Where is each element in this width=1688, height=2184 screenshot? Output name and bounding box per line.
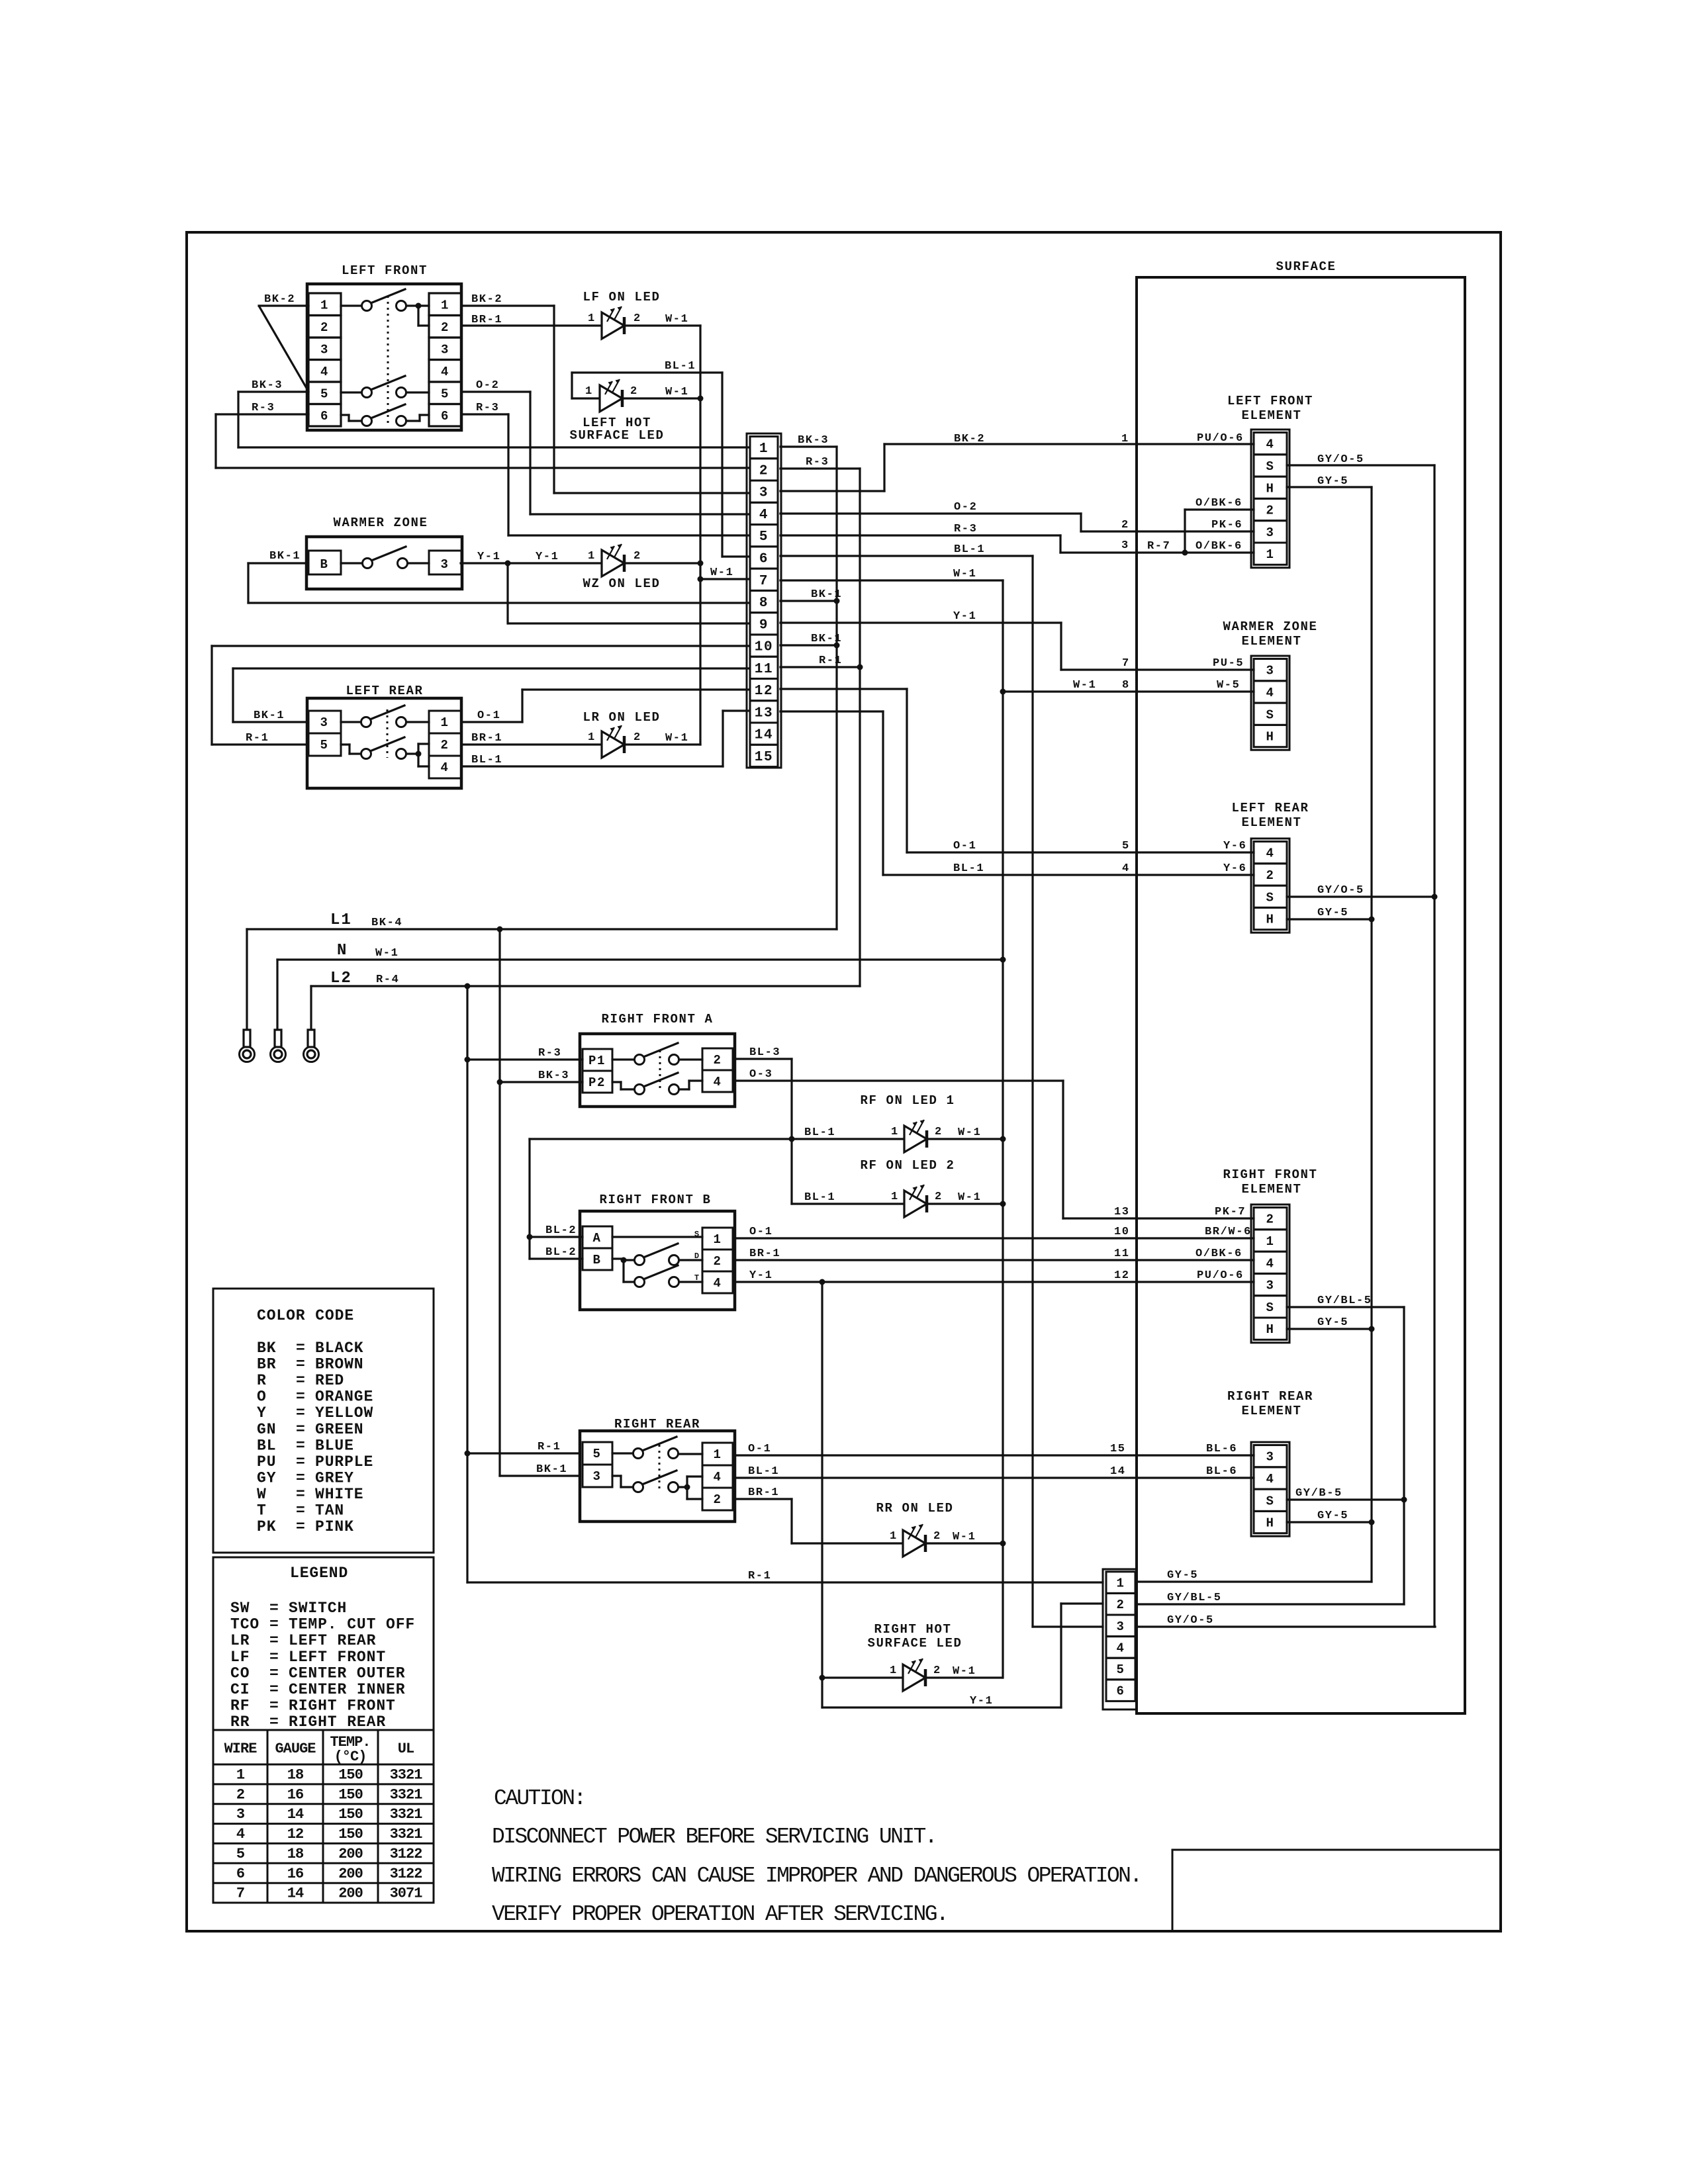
svg-text:PU: PU — [257, 1453, 276, 1471]
svg-text:3321: 3321 — [390, 1826, 423, 1843]
svg-text:RF ON LED 2: RF ON LED 2 — [860, 1158, 955, 1173]
svg-text:200: 200 — [338, 1886, 363, 1902]
svg-text:3321: 3321 — [390, 1786, 423, 1803]
svg-text:H: H — [1266, 481, 1274, 496]
svg-text:O/BK-6: O/BK-6 — [1196, 1248, 1243, 1260]
svg-text:GY-5: GY-5 — [1317, 1316, 1348, 1329]
svg-text:LF: LF — [230, 1649, 250, 1666]
svg-text:BK-3: BK-3 — [252, 379, 283, 392]
svg-text:R-4: R-4 — [376, 974, 399, 986]
svg-text:GREY: GREY — [315, 1469, 354, 1486]
svg-text:3321: 3321 — [390, 1767, 423, 1784]
svg-text:R-3: R-3 — [252, 402, 275, 414]
svg-text:H: H — [1266, 730, 1274, 745]
svg-text:5: 5 — [1122, 840, 1130, 852]
svg-text:WHITE: WHITE — [315, 1486, 364, 1503]
svg-text:R-1: R-1 — [748, 1570, 771, 1582]
svg-text:150: 150 — [338, 1767, 363, 1784]
svg-text:150: 150 — [338, 1806, 363, 1823]
svg-text:2: 2 — [441, 320, 449, 335]
svg-text:GY/O-5: GY/O-5 — [1317, 453, 1364, 466]
svg-text:BR/W-6: BR/W-6 — [1205, 1226, 1252, 1238]
svg-text:GREEN: GREEN — [315, 1421, 364, 1438]
svg-text:BR: BR — [257, 1356, 276, 1373]
svg-text:BROWN: BROWN — [315, 1356, 364, 1373]
svg-text:150: 150 — [338, 1786, 363, 1803]
svg-text:4: 4 — [1266, 846, 1274, 861]
svg-text:1: 1 — [891, 1191, 899, 1203]
svg-text:R-3: R-3 — [806, 456, 829, 469]
svg-text:O-1: O-1 — [749, 1226, 773, 1238]
svg-text:W-1: W-1 — [375, 947, 399, 960]
svg-text:GY/B-5: GY/B-5 — [1295, 1487, 1342, 1500]
svg-text:13: 13 — [755, 705, 773, 721]
svg-text:W-1: W-1 — [953, 568, 976, 580]
svg-text:14: 14 — [287, 1806, 304, 1823]
svg-text:PINK: PINK — [315, 1518, 354, 1535]
svg-text:BK-2: BK-2 — [954, 433, 985, 445]
svg-text:ORANGE: ORANGE — [315, 1388, 373, 1406]
svg-text:=: = — [269, 1664, 279, 1682]
svg-text:(°C): (°C) — [334, 1749, 367, 1765]
svg-text:N: N — [337, 942, 348, 960]
svg-text:GY-5: GY-5 — [1317, 1510, 1348, 1522]
svg-text:T: T — [257, 1502, 267, 1520]
svg-text:BK: BK — [257, 1340, 276, 1357]
svg-text:LEFT REAR: LEFT REAR — [289, 1632, 376, 1649]
svg-text:BL-1: BL-1 — [954, 543, 985, 556]
svg-text:O: O — [257, 1388, 267, 1406]
svg-text:2: 2 — [633, 550, 641, 563]
svg-text:2: 2 — [713, 1254, 722, 1269]
svg-text:=: = — [269, 1616, 279, 1633]
svg-text:BR-1: BR-1 — [471, 732, 502, 745]
svg-text:CI: CI — [230, 1681, 250, 1698]
svg-text:15: 15 — [755, 750, 773, 765]
svg-text:2: 2 — [1266, 504, 1274, 518]
svg-text:4: 4 — [713, 1276, 722, 1291]
svg-text:2: 2 — [933, 1530, 941, 1543]
svg-text:1: 1 — [713, 1447, 722, 1462]
svg-text:BL-6: BL-6 — [1206, 1443, 1237, 1455]
svg-text:H: H — [1266, 913, 1274, 927]
svg-text:8: 8 — [759, 596, 769, 611]
svg-text:4: 4 — [1122, 862, 1130, 875]
svg-text:BL: BL — [257, 1437, 276, 1454]
svg-text:5: 5 — [759, 529, 769, 545]
svg-text:2: 2 — [1266, 1212, 1274, 1227]
svg-text:Y-1: Y-1 — [477, 551, 500, 563]
svg-text:D: D — [694, 1251, 700, 1261]
svg-text:=: = — [296, 1388, 306, 1406]
svg-text:3: 3 — [440, 557, 449, 572]
svg-text:PU/O-6: PU/O-6 — [1197, 1269, 1244, 1282]
svg-text:O-2: O-2 — [954, 501, 977, 514]
svg-text:WARMER ZONE: WARMER ZONE — [1223, 619, 1317, 634]
svg-text:RIGHT FRONT: RIGHT FRONT — [1223, 1167, 1317, 1182]
svg-text:14: 14 — [287, 1886, 304, 1902]
svg-text:=: = — [296, 1486, 306, 1503]
svg-text:BK-1: BK-1 — [254, 709, 285, 722]
svg-text:PU/O-6: PU/O-6 — [1197, 432, 1244, 445]
svg-text:Y-1: Y-1 — [953, 610, 976, 623]
svg-text:Y-1: Y-1 — [749, 1269, 773, 1282]
svg-text:LEFT REAR: LEFT REAR — [346, 684, 423, 698]
svg-text:7: 7 — [236, 1886, 244, 1902]
svg-text:3: 3 — [1266, 525, 1274, 540]
svg-text:6: 6 — [1116, 1684, 1125, 1699]
svg-text:LEGEND: LEGEND — [290, 1565, 348, 1582]
svg-text:BLACK: BLACK — [315, 1340, 364, 1357]
svg-text:3: 3 — [320, 342, 329, 357]
svg-text:BLUE: BLUE — [315, 1437, 354, 1454]
svg-text:RIGHT REAR: RIGHT REAR — [289, 1713, 386, 1731]
svg-text:CENTER INNER: CENTER INNER — [289, 1681, 405, 1698]
svg-text:BK-4: BK-4 — [371, 917, 402, 929]
svg-text:P1: P1 — [588, 1054, 606, 1068]
svg-text:BL-1: BL-1 — [471, 754, 502, 766]
svg-text:5: 5 — [320, 738, 328, 752]
svg-text:ELEMENT: ELEMENT — [1241, 634, 1301, 649]
svg-text:3: 3 — [1266, 664, 1274, 678]
svg-text:9: 9 — [759, 617, 769, 633]
svg-text:=: = — [269, 1600, 279, 1617]
svg-text:O/BK-6: O/BK-6 — [1196, 540, 1243, 553]
svg-text:LR: LR — [230, 1632, 250, 1649]
svg-text:B: B — [592, 1253, 601, 1267]
svg-text:S: S — [1266, 1300, 1274, 1315]
svg-text:2: 2 — [633, 731, 641, 744]
svg-text:5: 5 — [441, 387, 449, 401]
svg-text:WIRE: WIRE — [224, 1741, 258, 1757]
svg-text:Y: Y — [257, 1404, 267, 1422]
svg-text:3: 3 — [1266, 1450, 1274, 1465]
svg-text:BR-1: BR-1 — [749, 1248, 780, 1260]
svg-text:1: 1 — [891, 1126, 899, 1138]
svg-text:PURPLE: PURPLE — [315, 1453, 373, 1471]
svg-text:5: 5 — [592, 1447, 601, 1461]
svg-text:Y-1: Y-1 — [536, 551, 559, 563]
svg-text:3: 3 — [592, 1469, 601, 1484]
svg-text:1: 1 — [320, 298, 329, 312]
svg-text:P2: P2 — [588, 1075, 606, 1090]
svg-text:W-1: W-1 — [665, 386, 688, 398]
svg-text:S: S — [1266, 707, 1274, 722]
svg-text:GAUGE: GAUGE — [275, 1741, 316, 1757]
svg-text:3: 3 — [1266, 1279, 1274, 1293]
svg-text:R: R — [257, 1372, 267, 1389]
svg-text:=: = — [296, 1453, 306, 1471]
svg-text:W-1: W-1 — [710, 567, 733, 579]
svg-text:L1: L1 — [330, 911, 352, 929]
svg-text:2: 2 — [633, 312, 641, 325]
svg-text:2: 2 — [1116, 1598, 1125, 1612]
svg-text:8: 8 — [1122, 679, 1130, 692]
svg-text:1: 1 — [441, 298, 449, 312]
svg-text:ELEMENT: ELEMENT — [1241, 1182, 1301, 1197]
svg-text:2: 2 — [933, 1664, 941, 1677]
svg-text:BK-1: BK-1 — [811, 588, 842, 601]
svg-text:RR ON LED: RR ON LED — [876, 1501, 953, 1516]
svg-text:14: 14 — [1110, 1465, 1126, 1478]
svg-text:RF ON LED 1: RF ON LED 1 — [860, 1093, 955, 1108]
svg-text:S: S — [1266, 890, 1274, 905]
svg-text:COLOR CODE: COLOR CODE — [257, 1307, 354, 1324]
svg-text:2: 2 — [935, 1126, 943, 1138]
svg-text:4: 4 — [1116, 1641, 1125, 1655]
svg-text:T: T — [694, 1273, 700, 1283]
svg-text:ELEMENT: ELEMENT — [1241, 408, 1301, 423]
svg-text:1: 1 — [236, 1767, 245, 1784]
svg-text:W-1: W-1 — [665, 313, 688, 326]
svg-text:W-1: W-1 — [953, 1665, 976, 1678]
svg-text:1: 1 — [1266, 547, 1274, 562]
svg-text:1: 1 — [1266, 1234, 1274, 1249]
svg-text:RR: RR — [230, 1713, 250, 1731]
svg-text:PU-5: PU-5 — [1213, 657, 1244, 670]
svg-text:2: 2 — [713, 1492, 722, 1507]
svg-text:PK-6: PK-6 — [1211, 519, 1243, 531]
svg-text:3122: 3122 — [390, 1846, 422, 1862]
svg-text:1: 1 — [588, 550, 596, 563]
svg-text:WIRING ERRORS CAN CAUSE IMPROP: WIRING ERRORS CAN CAUSE IMPROPER AND DAN… — [492, 1864, 1141, 1888]
svg-text:W-1: W-1 — [1073, 679, 1096, 692]
svg-text:BR-1: BR-1 — [471, 314, 502, 326]
svg-text:RIGHT FRONT: RIGHT FRONT — [289, 1698, 396, 1715]
svg-text:3122: 3122 — [390, 1866, 422, 1882]
svg-text:6: 6 — [320, 409, 329, 424]
svg-text:SURFACE: SURFACE — [1276, 259, 1336, 274]
svg-text:3: 3 — [1116, 1619, 1125, 1634]
svg-text:RIGHT FRONT B: RIGHT FRONT B — [599, 1193, 711, 1207]
svg-text:3: 3 — [320, 715, 328, 730]
svg-text:GY/O-5: GY/O-5 — [1167, 1614, 1214, 1627]
svg-text:=: = — [296, 1372, 306, 1389]
svg-text:PK: PK — [257, 1518, 276, 1535]
svg-text:2: 2 — [320, 320, 329, 335]
svg-text:3: 3 — [759, 486, 769, 501]
svg-text:DISCONNECT POWER BEFORE SERVIC: DISCONNECT POWER BEFORE SERVICING UNIT. — [492, 1825, 936, 1849]
svg-text:LEFT REAR: LEFT REAR — [1231, 801, 1309, 815]
svg-text:6: 6 — [759, 551, 769, 567]
svg-text:1: 1 — [890, 1530, 898, 1543]
svg-text:4: 4 — [759, 508, 769, 523]
svg-text:BK-1: BK-1 — [811, 633, 842, 645]
svg-text:BK-1: BK-1 — [536, 1463, 567, 1476]
svg-text:18: 18 — [287, 1846, 304, 1862]
svg-text:12: 12 — [1114, 1269, 1130, 1282]
svg-text:BK-2: BK-2 — [264, 293, 295, 306]
svg-text:S: S — [694, 1230, 700, 1239]
svg-text:ELEMENT: ELEMENT — [1241, 1404, 1301, 1418]
svg-text:12: 12 — [755, 684, 773, 699]
svg-text:6: 6 — [441, 409, 449, 424]
svg-text:=: = — [296, 1340, 306, 1357]
svg-text:=: = — [269, 1698, 279, 1715]
svg-text:5: 5 — [1116, 1662, 1125, 1677]
svg-text:4: 4 — [1266, 1472, 1274, 1486]
svg-text:=: = — [296, 1356, 306, 1373]
svg-text:RIGHT REAR: RIGHT REAR — [614, 1417, 700, 1432]
svg-text:TEMP. CUT OFF: TEMP. CUT OFF — [289, 1616, 415, 1633]
svg-text:O-3: O-3 — [749, 1068, 773, 1081]
svg-text:4: 4 — [1266, 686, 1274, 700]
svg-text:RF: RF — [230, 1698, 250, 1715]
svg-text:BL-1: BL-1 — [804, 1191, 835, 1204]
svg-text:TCO: TCO — [230, 1616, 259, 1633]
svg-text:CO: CO — [230, 1664, 250, 1682]
svg-text:RIGHT HOT: RIGHT HOT — [874, 1622, 951, 1637]
svg-text:14: 14 — [755, 728, 773, 743]
svg-text:10: 10 — [1114, 1226, 1130, 1238]
svg-text:BL-1: BL-1 — [953, 862, 984, 875]
svg-text:4: 4 — [1266, 437, 1274, 452]
svg-text:CENTER OUTER: CENTER OUTER — [289, 1664, 405, 1682]
svg-text:O-1: O-1 — [477, 709, 500, 722]
svg-text:WZ ON LED: WZ ON LED — [583, 576, 660, 591]
svg-text:13: 13 — [1114, 1206, 1130, 1218]
svg-text:LF ON LED: LF ON LED — [583, 290, 660, 304]
svg-text:=: = — [296, 1518, 306, 1535]
svg-text:LEFT FRONT: LEFT FRONT — [342, 263, 428, 278]
svg-text:R-3: R-3 — [476, 402, 499, 414]
svg-text:2: 2 — [630, 385, 638, 398]
svg-text:BL-1: BL-1 — [748, 1465, 779, 1478]
svg-text:1: 1 — [1116, 1576, 1125, 1591]
svg-text:SW: SW — [230, 1600, 250, 1617]
svg-text:R-1: R-1 — [246, 732, 269, 745]
svg-text:B: B — [320, 557, 328, 572]
svg-text:1: 1 — [588, 731, 596, 744]
svg-text:BK-1: BK-1 — [269, 550, 301, 563]
svg-text:RED: RED — [315, 1372, 344, 1389]
svg-text:6: 6 — [236, 1866, 244, 1882]
svg-text:GY-5: GY-5 — [1167, 1569, 1198, 1582]
svg-text:GY/BL-5: GY/BL-5 — [1167, 1592, 1222, 1604]
svg-text:16: 16 — [287, 1866, 303, 1882]
svg-text:4: 4 — [713, 1075, 722, 1089]
svg-text:1: 1 — [713, 1232, 722, 1247]
svg-text:2: 2 — [759, 463, 769, 478]
svg-text:A: A — [592, 1231, 601, 1246]
svg-text:2: 2 — [236, 1786, 244, 1803]
svg-text:BL-1: BL-1 — [665, 360, 696, 373]
svg-text:RIGHT REAR: RIGHT REAR — [1227, 1389, 1313, 1404]
svg-text:BL-1: BL-1 — [804, 1126, 835, 1139]
svg-text:SURFACE LED: SURFACE LED — [569, 428, 664, 443]
svg-text:GY-5: GY-5 — [1317, 475, 1348, 488]
svg-text:12: 12 — [287, 1826, 303, 1843]
svg-text:GY-5: GY-5 — [1317, 907, 1348, 919]
svg-text:YELLOW: YELLOW — [315, 1404, 373, 1422]
svg-text:LR ON LED: LR ON LED — [583, 710, 660, 725]
svg-text:1: 1 — [585, 385, 593, 398]
svg-text:BK-2: BK-2 — [471, 293, 502, 306]
svg-text:WARMER ZONE: WARMER ZONE — [333, 516, 428, 530]
svg-text:7: 7 — [1122, 657, 1130, 670]
svg-text:3: 3 — [441, 342, 449, 357]
svg-text:3071: 3071 — [390, 1886, 423, 1902]
svg-text:2: 2 — [1121, 519, 1129, 531]
svg-text:5: 5 — [320, 387, 329, 401]
svg-text:3321: 3321 — [390, 1806, 423, 1823]
svg-text:O-2: O-2 — [476, 379, 499, 392]
svg-text:O/BK-6: O/BK-6 — [1196, 497, 1243, 510]
svg-text:W-1: W-1 — [958, 1126, 981, 1139]
svg-text:=: = — [296, 1437, 306, 1454]
svg-text:R-1: R-1 — [819, 655, 842, 667]
svg-text:=: = — [296, 1502, 306, 1520]
svg-text:VERIFY PROPER OPERATION AFTER: VERIFY PROPER OPERATION AFTER SERVICING. — [492, 1902, 947, 1927]
svg-text:GY: GY — [257, 1469, 276, 1486]
svg-text:15: 15 — [1110, 1443, 1126, 1455]
svg-text:BK-3: BK-3 — [798, 434, 829, 447]
svg-text:H: H — [1266, 1322, 1274, 1337]
svg-text:W-1: W-1 — [958, 1191, 981, 1204]
svg-text:11: 11 — [755, 662, 773, 677]
svg-text:1: 1 — [759, 441, 769, 457]
svg-text:R-7: R-7 — [1147, 540, 1170, 553]
svg-text:7: 7 — [759, 574, 769, 589]
svg-text:S: S — [1266, 1494, 1274, 1508]
svg-text:4: 4 — [441, 365, 449, 379]
svg-text:4: 4 — [320, 365, 329, 379]
svg-text:200: 200 — [338, 1866, 363, 1882]
svg-text:R-3: R-3 — [954, 523, 977, 535]
svg-text:BL-3: BL-3 — [749, 1046, 780, 1059]
svg-text:W-1: W-1 — [665, 732, 688, 745]
svg-text:=: = — [296, 1469, 306, 1486]
svg-text:150: 150 — [338, 1826, 363, 1843]
svg-text:16: 16 — [287, 1786, 303, 1803]
svg-text:O-1: O-1 — [748, 1443, 771, 1455]
svg-text:S: S — [1266, 459, 1274, 474]
svg-text:O-1: O-1 — [953, 840, 976, 852]
svg-text:SWITCH: SWITCH — [289, 1600, 347, 1617]
svg-text:R-1: R-1 — [538, 1441, 561, 1453]
svg-text:4: 4 — [440, 760, 449, 775]
svg-text:L2: L2 — [330, 970, 352, 987]
svg-text:1: 1 — [1121, 433, 1129, 445]
svg-text:10: 10 — [755, 640, 773, 655]
svg-text:2: 2 — [440, 738, 449, 752]
svg-text:=: = — [269, 1713, 279, 1731]
svg-text:5: 5 — [236, 1846, 245, 1862]
svg-text:SURFACE LED: SURFACE LED — [867, 1636, 962, 1651]
svg-text:2: 2 — [935, 1191, 943, 1203]
svg-text:BK-3: BK-3 — [538, 1069, 569, 1082]
svg-text:BL-2: BL-2 — [545, 1246, 577, 1259]
svg-text:W-1: W-1 — [953, 1531, 976, 1543]
svg-text:GN: GN — [257, 1421, 276, 1438]
svg-text:3: 3 — [1121, 539, 1129, 552]
svg-text:Y-6: Y-6 — [1223, 840, 1246, 852]
svg-text:R-3: R-3 — [538, 1047, 561, 1060]
svg-text:W-5: W-5 — [1217, 679, 1240, 692]
svg-text:W: W — [257, 1486, 267, 1503]
svg-text:18: 18 — [287, 1767, 304, 1784]
svg-text:CAUTION:: CAUTION: — [494, 1786, 585, 1811]
svg-text:GY/O-5: GY/O-5 — [1317, 884, 1364, 897]
svg-text:BR-1: BR-1 — [748, 1486, 779, 1499]
svg-text:=: = — [269, 1649, 279, 1666]
svg-text:=: = — [269, 1681, 279, 1698]
svg-text:BL-2: BL-2 — [545, 1224, 577, 1237]
svg-text:200: 200 — [338, 1846, 363, 1862]
svg-text:=: = — [296, 1421, 306, 1438]
svg-text:2: 2 — [1266, 868, 1274, 883]
svg-text:LEFT FRONT: LEFT FRONT — [289, 1649, 386, 1666]
